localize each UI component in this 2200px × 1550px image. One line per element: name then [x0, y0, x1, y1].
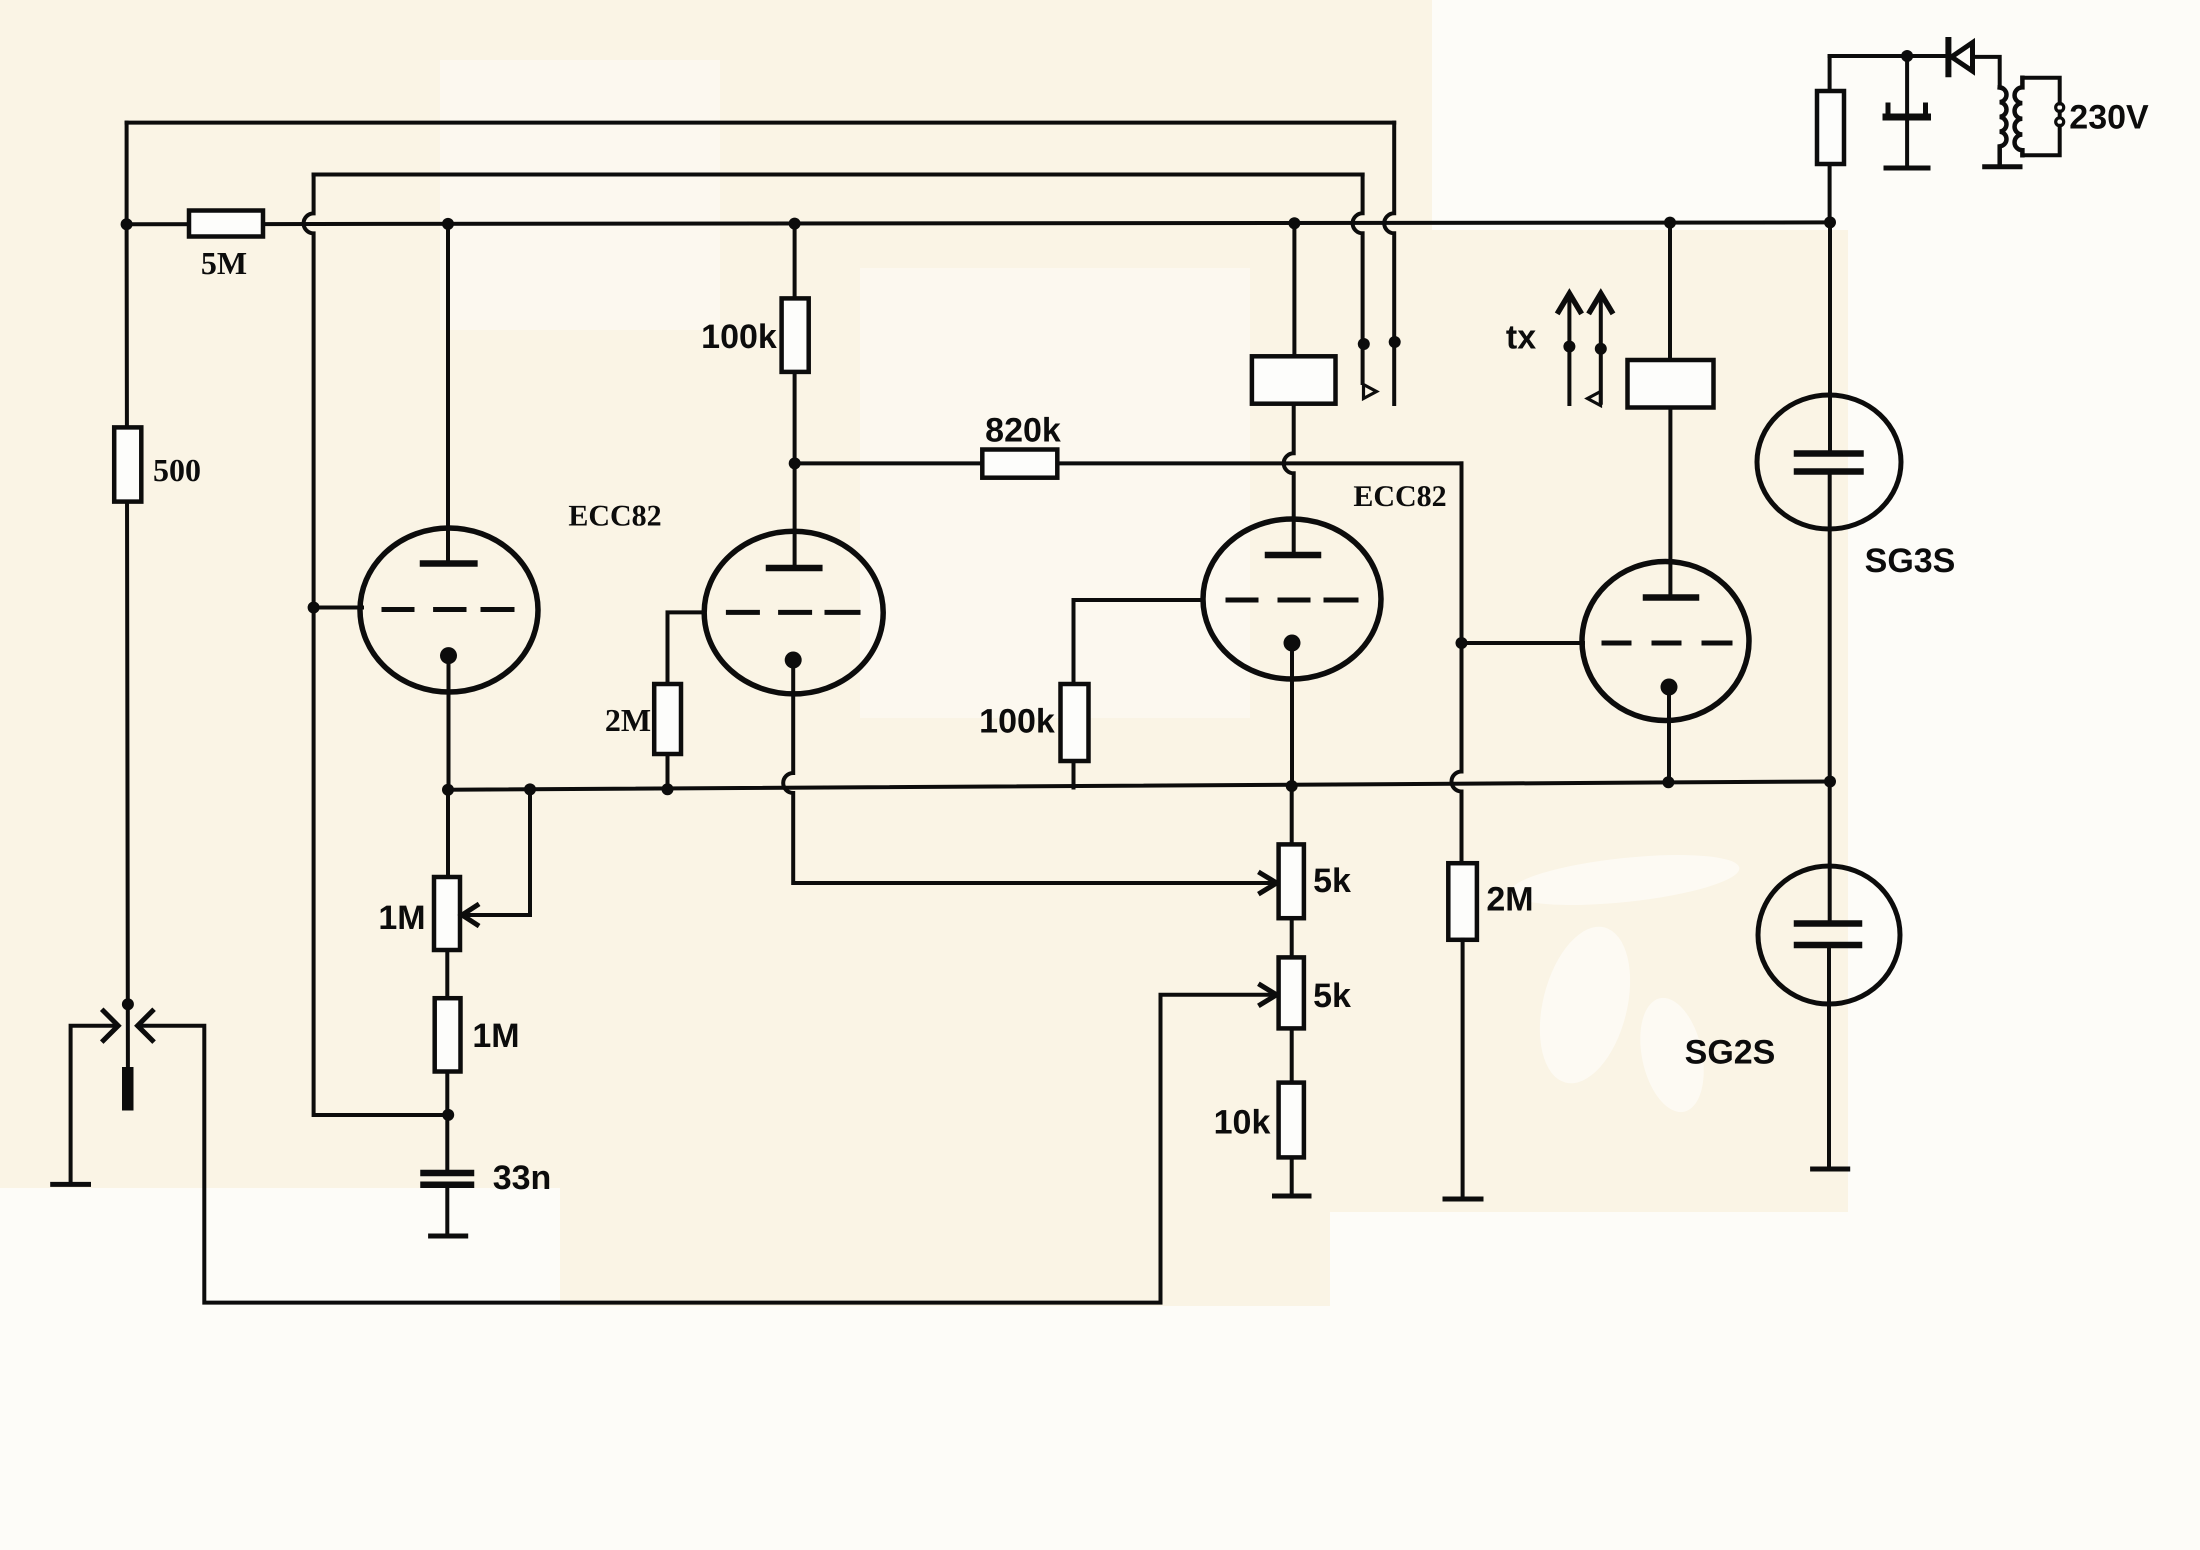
svg-text:5M: 5M — [201, 245, 247, 281]
svg-text:500: 500 — [153, 452, 201, 488]
wire SG2S top column — [1828, 782, 1832, 922]
cathode lead V4 — [1667, 687, 1671, 782]
svg-text:SG2S: SG2S — [1685, 1034, 1776, 1072]
svg-text:SG3S: SG3S — [1865, 542, 1956, 580]
wire 230V terminals loop — [2022, 78, 2059, 156]
resistor 1M body — [435, 998, 461, 1071]
node box2 feed — [1664, 217, 1676, 229]
cathode lead V3 — [1290, 643, 1294, 786]
tx moving-contact triangle — [1588, 392, 1601, 406]
ground bar (cap) — [1886, 166, 1928, 171]
node V3 cathode — [1286, 780, 1298, 792]
node PSU diode tap — [1901, 50, 1913, 62]
stabiliser SG3S envelope — [1757, 395, 1901, 529]
node cathode bus V1 — [442, 784, 454, 796]
potentiometer 1M body — [434, 877, 460, 950]
terminal circle 230V lower — [2056, 118, 2064, 126]
wire rail-2 right drop: hop over bus, to switch contact — [1353, 175, 1363, 384]
cathode dot V3 — [1284, 635, 1301, 652]
resistor 820k body — [982, 450, 1057, 478]
svg-text:100k: 100k — [701, 318, 777, 356]
tx plug arrow left — [1567, 295, 1571, 404]
box component (coupling unit 1) — [1252, 356, 1336, 403]
terminal circle 230V upper — [2056, 104, 2064, 112]
node box1 feed — [1288, 217, 1300, 229]
triode V1 envelope — [360, 528, 538, 692]
node 1M/33n junction — [442, 1109, 454, 1121]
potentiometer 5k body (R8) — [1279, 844, 1304, 918]
wire anode column V1 — [446, 224, 450, 562]
node V2 anode feed — [789, 218, 801, 230]
wire V4 grid stub — [1462, 641, 1584, 645]
svg-text:10k: 10k — [1214, 1104, 1271, 1142]
wire diode to transformer — [1975, 57, 2000, 88]
wire cap to ground — [1905, 121, 1909, 166]
wire rail-1 left drop to B+ bus — [125, 123, 129, 225]
wire top rail 2 (grid rail) — [314, 173, 1363, 177]
wire top rail 1 (5M node to switch right contact) — [127, 121, 1395, 125]
diode D1 triangle — [1952, 43, 1973, 72]
wire 100k to cathode bus — [1072, 761, 1076, 788]
svg-text:1M: 1M — [472, 1017, 519, 1055]
box component (coupling unit 2) — [1628, 360, 1714, 408]
tx plug arrow right — [1599, 295, 1603, 403]
wire B+ bus — [127, 222, 1830, 224]
transformer primary winding — [2000, 87, 2007, 166]
node V1 grid — [308, 602, 320, 614]
node jack tip — [122, 998, 134, 1010]
contact dot tx left — [1563, 341, 1575, 353]
wire rail-2 left drop: hop over bus, down to grid node and 33n junction — [304, 175, 448, 1116]
wire grid stub to tube V1 — [314, 606, 362, 610]
cathode dot V2 — [785, 652, 802, 669]
resistor 2M body (second) — [1448, 863, 1477, 940]
contact dot switch S1 right — [1389, 336, 1401, 348]
node PSU bus — [1824, 216, 1836, 228]
potentiometer 5k body (R10) — [1279, 957, 1304, 1028]
anode bar V1 — [423, 560, 474, 567]
transformer secondary winding — [2015, 78, 2023, 156]
resistor 2M body — [654, 684, 681, 754]
arrowhead wiper of 5k R8 — [1261, 873, 1277, 893]
capacitor 33n plates — [424, 1173, 472, 1185]
wire 820k row from V2 anode node to right column — [795, 461, 1462, 465]
grid dashes V4 — [1604, 641, 1730, 646]
svg-text:ECC82: ECC82 — [1353, 480, 1446, 513]
resistor 500 body — [114, 427, 141, 501]
capacitor PSU plate (tray) — [1886, 114, 1928, 121]
node B+ left — [121, 218, 133, 230]
grid dashes V3 — [1228, 598, 1356, 603]
cathode dot V4 — [1661, 679, 1678, 696]
node V1 anode feed — [442, 218, 454, 230]
wire right column: down to tube V4 grid, hop over cathode bus, 2M, ground — [1452, 463, 1462, 863]
node 2M bottom — [662, 783, 674, 795]
anode bar V2 — [769, 565, 819, 572]
grid dashes V2 — [728, 610, 858, 615]
ground bar (transformer primary) — [1985, 164, 2020, 169]
node V4 grid tap — [1456, 637, 1468, 649]
SG2S electrode plates — [1797, 924, 1859, 946]
wire cathode bus (lower rail) — [448, 782, 1830, 790]
ground bar (SG2S) — [1813, 1167, 1848, 1172]
arrowhead wiper of 5k R10 — [1261, 985, 1277, 1005]
wire SG3S top column from bus — [1828, 222, 1832, 450]
wire PSU top rail — [1830, 54, 1945, 58]
wire box1 to V3 anode with hop over 820k row — [1284, 404, 1294, 553]
svg-text:2M: 2M — [605, 702, 651, 738]
wire PSU dropper column — [1828, 56, 1832, 91]
cathode dot V1 — [440, 647, 457, 664]
wire grid V2 to 2M — [668, 612, 705, 684]
SG3S electrode plates — [1797, 454, 1861, 472]
svg-text:820k: 820k — [985, 412, 1061, 450]
jack plug tip (thick bar) — [122, 1067, 134, 1111]
wire 33n to ground — [445, 1188, 449, 1233]
ground bar (2M) — [1445, 1197, 1481, 1202]
resistor 5M body — [189, 211, 263, 237]
resistor 100k body — [782, 298, 809, 372]
triode V4 envelope — [1582, 562, 1749, 721]
svg-text:230V: 230V — [2069, 99, 2149, 137]
wire 1M pot wiper from cathode bus — [464, 789, 530, 915]
wire column pot to 1M to 33n — [445, 950, 449, 1170]
wire box2 to V4 anode — [1668, 408, 1672, 596]
node 820k tap — [789, 457, 801, 469]
contact dot tx right — [1595, 343, 1607, 355]
wire SG3S bottom to cathode bus — [1828, 475, 1832, 782]
ground bar (33n) — [431, 1234, 466, 1239]
node pot wiper feed — [524, 783, 536, 795]
wire 2M to ground — [1461, 940, 1465, 1196]
contact dot switch S1 left — [1358, 338, 1370, 350]
wire filter cap lead — [1905, 56, 1909, 112]
ground bar (10k) — [1275, 1194, 1310, 1199]
arrowhead wiper of 1M pot — [462, 905, 477, 924]
triode V2 envelope — [704, 531, 883, 694]
resistor 100k body (second) — [1061, 684, 1089, 761]
wire dropper to bus — [1828, 164, 1832, 222]
svg-text:5k: 5k — [1313, 977, 1351, 1015]
svg-text:33n: 33n — [493, 1159, 552, 1197]
anode bar V4 — [1646, 594, 1696, 601]
wire divider chain 5k 5k 10k — [1290, 786, 1294, 1194]
svg-text:2M: 2M — [1486, 881, 1533, 919]
wire box1 column from bus — [1292, 223, 1296, 356]
jack right contact arm, long return wire to 5k wiper — [138, 995, 1272, 1303]
jack left contact arm with arrow — [71, 1026, 118, 1183]
svg-text:ECC82: ECC82 — [568, 500, 661, 533]
wire cathode V2: hop over bus, corner, wiper line to 5k R8 — [783, 660, 1272, 883]
wire 2M to cathode bus — [666, 754, 670, 789]
svg-text:1M: 1M — [378, 899, 425, 937]
diode D1 cathode bar — [1945, 40, 1951, 74]
grid dashes V1 — [384, 607, 512, 612]
wire anode column V2 through 100k — [793, 224, 797, 566]
svg-text:100k: 100k — [979, 703, 1055, 741]
stabiliser SG2S envelope — [1758, 866, 1900, 1004]
svg-text:5k: 5k — [1313, 862, 1351, 900]
node V4 cathode — [1662, 776, 1674, 788]
ground bar (left jack arm) — [53, 1182, 89, 1187]
wire grid V3 to 100k (second) — [1074, 600, 1204, 684]
anode bar V3 — [1268, 552, 1318, 559]
svg-text:tx: tx — [1506, 319, 1536, 357]
wire cathode bus to 1M pot — [446, 790, 450, 877]
wire rail-1 right drop with hop over bus, to switch contact — [1384, 123, 1394, 404]
switch S1 moving-contact triangle — [1364, 385, 1377, 399]
wire box2 column from bus — [1668, 223, 1672, 360]
resistor 10k body — [1279, 1083, 1304, 1158]
resistor PSU dropper body — [1817, 91, 1844, 164]
cathode lead V1 — [447, 656, 451, 790]
wire left column through 500 down to jack — [127, 224, 128, 1066]
triode V3 envelope — [1203, 519, 1381, 679]
wire SG2S bottom to ground — [1827, 948, 1831, 1167]
node SG column — [1824, 776, 1836, 788]
